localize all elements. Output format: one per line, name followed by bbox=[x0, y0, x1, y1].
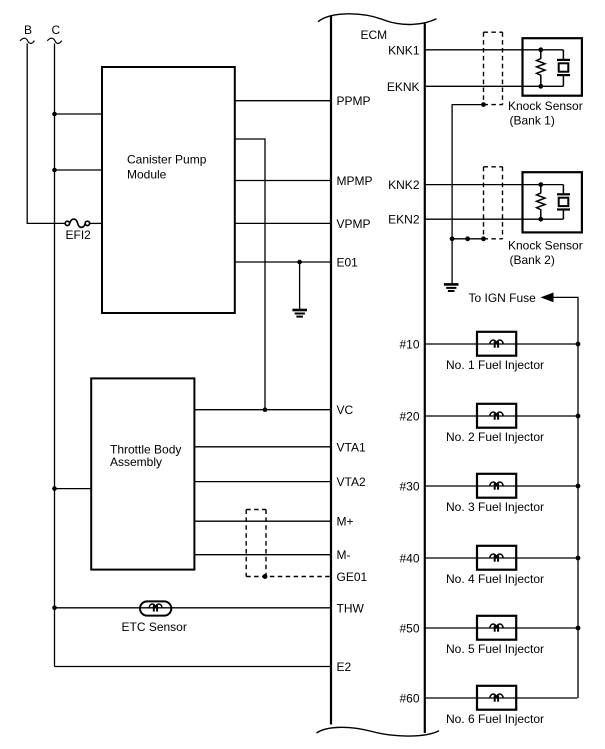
wire VPMP bbox=[235, 222, 331, 224]
coil INJ4 bbox=[490, 554, 503, 558]
throttle body assembly U2 bbox=[91, 378, 194, 569]
svg-text:No. 2 Fuel Injector: No. 2 Fuel Injector bbox=[446, 430, 544, 444]
svg-text:No. 4 Fuel Injector: No. 4 Fuel Injector bbox=[446, 572, 544, 586]
svg-text:GE01: GE01 bbox=[337, 570, 368, 584]
junction dot E01 ground bbox=[297, 260, 302, 265]
svg-text:EFI2: EFI2 bbox=[66, 228, 92, 242]
svg-text:M-: M- bbox=[337, 548, 351, 562]
svg-text:Module: Module bbox=[127, 168, 167, 182]
coil INJ3 bbox=[490, 482, 503, 486]
wire #20 bbox=[425, 415, 579, 417]
svg-text:E2: E2 bbox=[337, 660, 352, 674]
injector INJ4 bbox=[446, 546, 544, 586]
svg-text:KNK1: KNK1 bbox=[388, 43, 420, 57]
injector INJ3 bbox=[446, 474, 544, 514]
svg-text:THW: THW bbox=[337, 601, 365, 615]
svg-text:Knock Sensor: Knock Sensor bbox=[508, 99, 583, 113]
svg-text:#40: #40 bbox=[399, 552, 419, 566]
node C bbox=[47, 23, 61, 44]
svg-text:VTA2: VTA2 bbox=[337, 475, 366, 489]
resistor R (bank 2) bbox=[537, 185, 545, 220]
resistor R (bank 1) bbox=[537, 50, 545, 87]
junction dot shield 1 bbox=[481, 102, 486, 107]
wire #60 bbox=[425, 697, 578, 699]
svg-text:B: B bbox=[24, 23, 32, 37]
wire fuse to canister bbox=[90, 222, 102, 224]
piezo element (bank 2) bbox=[562, 185, 564, 195]
svg-text:E01: E01 bbox=[337, 256, 359, 270]
wire THW bbox=[55, 607, 332, 609]
svg-text:#50: #50 bbox=[399, 622, 419, 636]
canister pump module U1 bbox=[102, 67, 235, 313]
ECM bottom break (wavy) bbox=[317, 727, 440, 736]
svg-text:C: C bbox=[52, 23, 61, 37]
svg-text:#60: #60 bbox=[399, 692, 419, 706]
svg-text:ECM: ECM bbox=[361, 28, 388, 42]
ETC sensor bbox=[122, 601, 187, 634]
wire EKNK bbox=[425, 85, 564, 87]
wire VC bbox=[194, 409, 331, 411]
svg-text:No. 1 Fuel Injector: No. 1 Fuel Injector bbox=[446, 358, 544, 372]
svg-text:PPMP: PPMP bbox=[337, 94, 371, 108]
wire IGN feed bbox=[553, 297, 578, 698]
wire #50 bbox=[425, 627, 579, 629]
wire VTA1 bbox=[194, 446, 331, 448]
wire C vertical (sensor ground daisy chain) bbox=[54, 44, 56, 667]
svg-text:VTA1: VTA1 bbox=[337, 440, 366, 454]
injector INJ6 bbox=[446, 686, 544, 726]
shield (bank 2) dashed bbox=[484, 167, 503, 239]
ECM left edge bbox=[330, 16, 332, 725]
injector INJ5 bbox=[446, 616, 544, 656]
junction dot bbox=[52, 486, 57, 491]
wire C to throttle body bbox=[55, 488, 92, 490]
svg-text:No. 5 Fuel Injector: No. 5 Fuel Injector bbox=[446, 642, 544, 656]
junction dots (bank 1) bbox=[538, 47, 543, 52]
knock sensor (bank 2) bbox=[508, 172, 583, 267]
injector bus dots bbox=[576, 342, 581, 347]
svg-text:VPMP: VPMP bbox=[337, 217, 371, 231]
coil INJ2 bbox=[490, 412, 503, 416]
coil INJ6 bbox=[490, 694, 503, 698]
svg-text:#20: #20 bbox=[399, 410, 419, 424]
junction dot bbox=[52, 112, 57, 117]
svg-text:#10: #10 bbox=[399, 338, 419, 352]
wire M+ bbox=[194, 520, 331, 522]
svg-text:No. 3 Fuel Injector: No. 3 Fuel Injector bbox=[446, 500, 544, 514]
svg-text:(Bank 1): (Bank 1) bbox=[510, 114, 555, 128]
wire VTA2 bbox=[194, 481, 331, 483]
fuse EFI2 bbox=[65, 219, 91, 242]
svg-text:Knock Sensor: Knock Sensor bbox=[508, 238, 583, 252]
wire canister to VC feed bbox=[235, 139, 265, 410]
wire E01 to ground bbox=[299, 262, 301, 310]
shield (bank 1) dashed bbox=[484, 32, 503, 104]
wire M- bbox=[194, 554, 331, 556]
wire drain to ground bbox=[451, 239, 453, 284]
svg-text:(Bank 2): (Bank 2) bbox=[510, 253, 555, 267]
injector INJ2 bbox=[446, 404, 544, 444]
wire E2 bbox=[55, 666, 332, 668]
svg-text:No. 6 Fuel Injector: No. 6 Fuel Injector bbox=[446, 712, 544, 726]
coil INJ1 bbox=[490, 340, 503, 344]
wire B vertical bbox=[27, 44, 65, 224]
ground (E01) bbox=[292, 310, 307, 317]
ground (shield drain) bbox=[444, 284, 459, 291]
wire #30 bbox=[425, 485, 579, 487]
wire GE01 (shield drain, dashed) bbox=[246, 576, 331, 578]
shield (M+/M-) dashed bbox=[246, 510, 266, 577]
junction dot bbox=[52, 168, 57, 173]
node B bbox=[20, 23, 34, 43]
piezo element (bank 1) bbox=[562, 50, 564, 60]
junction dots drain bbox=[450, 236, 455, 241]
knock sensor (bank 1) bbox=[508, 38, 583, 127]
svg-text:M+: M+ bbox=[337, 515, 354, 529]
wire #40 bbox=[425, 557, 579, 559]
coil INJ5 bbox=[490, 624, 503, 628]
svg-text:ETC Sensor: ETC Sensor bbox=[122, 620, 187, 634]
injector INJ1 bbox=[446, 332, 544, 372]
svg-text:To IGN Fuse: To IGN Fuse bbox=[469, 291, 537, 305]
svg-text:EKNK: EKNK bbox=[387, 80, 420, 94]
wire C to canister pin 2 bbox=[55, 169, 103, 171]
wire KNK1 bbox=[425, 49, 564, 51]
junction dot GE01 bbox=[263, 574, 268, 579]
wire C to canister pin 1 bbox=[55, 113, 103, 115]
arrow to IGN fuse bbox=[541, 293, 554, 303]
wire E01 bbox=[235, 261, 331, 263]
ECM right edge bbox=[424, 24, 426, 734]
svg-text:KNK2: KNK2 bbox=[388, 178, 420, 192]
svg-text:MPMP: MPMP bbox=[337, 174, 373, 188]
wire PPMP bbox=[235, 100, 331, 102]
junction dot THW bbox=[52, 606, 57, 611]
junction dots (bank 2) bbox=[538, 182, 543, 187]
wire shield drain junction (bank 2) bbox=[452, 238, 483, 240]
junction dot VC bbox=[263, 407, 268, 412]
wire MPMP bbox=[235, 180, 331, 182]
svg-text:VC: VC bbox=[337, 403, 354, 417]
ECM top break (wavy) bbox=[318, 14, 437, 25]
svg-text:#30: #30 bbox=[399, 480, 419, 494]
wire #10 bbox=[425, 343, 579, 345]
svg-text:Canister Pump: Canister Pump bbox=[127, 153, 207, 167]
svg-text:Assembly: Assembly bbox=[110, 455, 162, 469]
wire shield drain (bank 1) bbox=[452, 105, 483, 239]
wire KNK2 bbox=[425, 184, 564, 186]
svg-text:EKN2: EKN2 bbox=[388, 213, 420, 227]
wire EKN2 bbox=[425, 218, 564, 220]
